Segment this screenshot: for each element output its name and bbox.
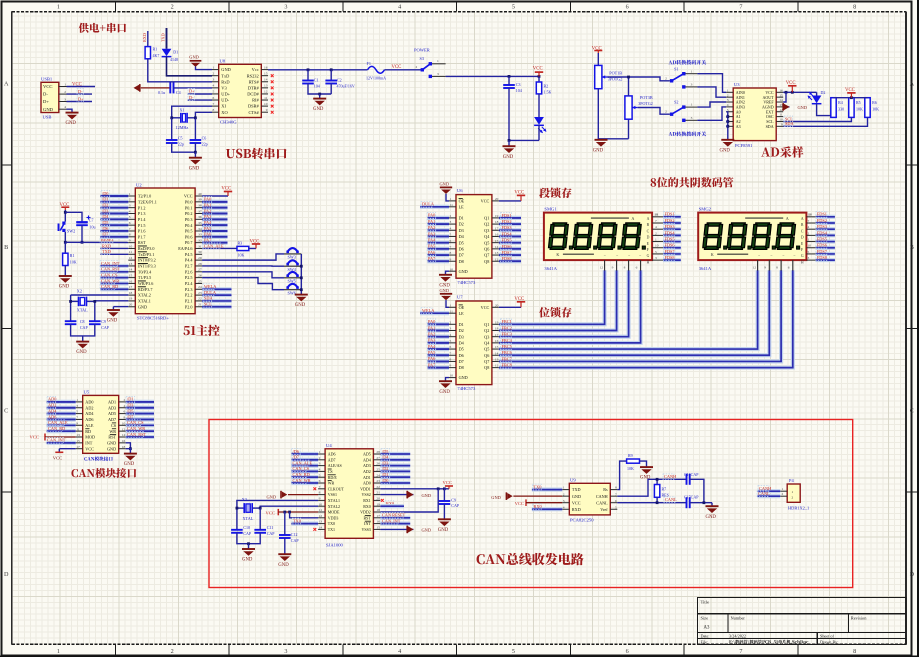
svg-text:F1: F1 (367, 61, 371, 66)
svg-text:P2.7: P2.7 (185, 264, 193, 269)
svg-text:VDD3: VDD3 (328, 515, 339, 520)
svg-text:13: 13 (76, 433, 80, 437)
svg-text:RST: RST (138, 240, 146, 245)
svg-text:1: 1 (782, 487, 784, 491)
svg-text:C: C (910, 407, 914, 414)
svg-text:GND: GND (76, 350, 87, 355)
svg-text:2: 2 (450, 320, 452, 324)
svg-text:3: 3 (655, 256, 657, 260)
svg-text:LE: LE (459, 204, 465, 209)
svg-text:PCA82C250: PCA82C250 (570, 518, 594, 523)
svg-text:10: 10 (264, 102, 268, 106)
svg-text:–: – (638, 253, 641, 257)
svg-text:26: 26 (376, 462, 380, 466)
svg-text:6: 6 (636, 265, 638, 269)
svg-text:1: 1 (76, 398, 78, 402)
svg-text:RD/E: RD/E (328, 475, 338, 480)
svg-text:P4.4: P4.4 (185, 258, 193, 263)
svg-text:B: B (647, 223, 650, 227)
svg-text:4148: 4148 (170, 57, 178, 62)
svg-text:VCC: VCC (514, 297, 524, 302)
svg-text:8: 8 (853, 4, 856, 11)
svg-text:4: 4 (64, 105, 66, 109)
svg-text:Q1: Q1 (484, 322, 489, 327)
svg-text:GND: GND (438, 528, 449, 533)
svg-text:D1: D1 (459, 216, 464, 221)
svg-text:XTAL: XTAL (77, 308, 88, 313)
svg-text:4: 4 (450, 333, 452, 337)
svg-text:6: 6 (123, 410, 125, 414)
svg-text:8: 8 (123, 416, 125, 420)
svg-text:INT: INT (85, 440, 92, 445)
svg-text:PA2: PA2 (428, 225, 435, 230)
svg-text:12: 12 (779, 108, 783, 112)
svg-text:FDS4: FDS4 (502, 231, 513, 236)
svg-text:SMG1: SMG1 (544, 207, 557, 212)
svg-text:B: B (910, 244, 914, 251)
svg-text:FDS2: FDS2 (665, 218, 675, 223)
svg-text:4: 4 (123, 404, 125, 408)
svg-text:2: 2 (319, 456, 321, 460)
svg-text:C10: C10 (243, 525, 250, 530)
svg-text:D-: D- (43, 92, 48, 97)
svg-text:6: 6 (615, 499, 617, 503)
svg-text:PA6: PA6 (428, 356, 436, 361)
svg-text:TXD: TXD (572, 487, 581, 492)
svg-text:1: 1 (563, 486, 565, 490)
svg-text:PA7: PA7 (428, 256, 436, 261)
svg-text:P4.5: P4.5 (185, 252, 193, 257)
svg-text:1: 1 (57, 4, 60, 11)
svg-text:CAN_CS: CAN_CS (127, 420, 144, 425)
svg-text:VCC: VCC (443, 480, 452, 485)
svg-text:XTAL1: XTAL1 (138, 299, 151, 304)
svg-text:CAN_CS: CAN_CS (101, 272, 118, 277)
svg-text:10u: 10u (90, 224, 96, 229)
svg-text:U8: U8 (220, 59, 226, 64)
svg-text:FBC6: FBC6 (502, 350, 513, 355)
svg-text:1: 1 (213, 65, 215, 69)
svg-text:Sheet of: Sheet of (820, 633, 834, 638)
svg-text:POT1B: POT1B (609, 71, 622, 76)
svg-text:–: – (757, 253, 760, 257)
svg-text:GND: GND (440, 182, 450, 187)
svg-text:10: 10 (779, 118, 783, 122)
svg-text:39: 39 (198, 198, 202, 202)
svg-text:C9: C9 (101, 319, 106, 324)
svg-text:24: 24 (376, 473, 380, 477)
svg-text:SMG2: SMG2 (699, 207, 712, 212)
svg-text:AD4: AD4 (48, 408, 57, 413)
svg-text:13: 13 (129, 262, 133, 266)
svg-text:4: 4 (398, 648, 401, 655)
svg-text:26: 26 (198, 273, 202, 277)
svg-text:10: 10 (450, 374, 454, 378)
svg-text:XO: XO (221, 110, 227, 115)
svg-text:GND: GND (43, 107, 54, 112)
svg-text:7: 7 (450, 351, 452, 355)
svg-text:RTS#: RTS# (249, 79, 260, 84)
svg-text:7: 7 (655, 219, 657, 223)
svg-text:K: K (711, 252, 714, 257)
svg-text:17: 17 (129, 285, 133, 289)
svg-text:D: D (801, 236, 804, 240)
svg-text:18: 18 (495, 327, 499, 331)
svg-text:3: 3 (284, 4, 287, 11)
svg-text:FDS8: FDS8 (665, 255, 675, 260)
svg-text:CAN_WR: CAN_WR (293, 478, 311, 483)
svg-text:4: 4 (655, 225, 657, 229)
svg-text:11: 11 (129, 250, 133, 254)
svg-text:1: 1 (319, 450, 321, 454)
svg-text:MODE: MODE (328, 510, 340, 515)
svg-text:4K7: 4K7 (153, 53, 160, 58)
svg-text:19: 19 (376, 502, 380, 506)
svg-text:U9: U9 (570, 477, 576, 482)
svg-text:GND: GND (107, 446, 116, 451)
svg-text:X2: X2 (77, 288, 82, 293)
svg-text:2: 2 (129, 198, 131, 202)
svg-text:10: 10 (319, 502, 323, 506)
svg-text:PA0: PA0 (428, 213, 435, 218)
svg-text:4: 4 (398, 4, 401, 11)
svg-text:3: 3 (319, 462, 321, 466)
svg-text:Q4: Q4 (484, 234, 490, 239)
svg-text:10: 10 (655, 244, 659, 248)
svg-text:U6: U6 (457, 188, 463, 193)
svg-text:Number: Number (731, 616, 746, 621)
svg-text:GND: GND (422, 528, 432, 533)
svg-text:15: 15 (76, 439, 80, 443)
svg-text:P2.1: P2.1 (185, 299, 193, 304)
svg-text:D3: D3 (459, 228, 464, 233)
svg-text:5: 5 (76, 410, 78, 414)
svg-text:FBC3: FBC3 (502, 332, 512, 337)
svg-text:XI: XI (221, 104, 226, 109)
svg-text:VCC: VCC (30, 435, 39, 440)
svg-text:CAN_RST: CAN_RST (101, 267, 120, 272)
svg-text:D+: D+ (78, 96, 84, 101)
svg-text:D: D (910, 571, 915, 578)
svg-text:SW2: SW2 (67, 229, 75, 234)
svg-text:GND: GND (278, 563, 289, 568)
svg-text:FDS7: FDS7 (665, 249, 676, 254)
svg-text:RS232: RS232 (247, 73, 259, 78)
svg-text:3: 3 (691, 116, 693, 120)
svg-text:28: 28 (198, 262, 202, 266)
svg-text:18: 18 (495, 220, 499, 224)
svg-text:RD/P3.7: RD/P3.7 (138, 287, 153, 292)
svg-text:GND: GND (459, 375, 468, 380)
svg-text:7: 7 (615, 492, 617, 496)
svg-text:8: 8 (776, 265, 778, 269)
svg-text:CAP: CAP (267, 531, 276, 536)
svg-text:6: 6 (626, 4, 629, 11)
svg-text:5: 5 (512, 4, 515, 11)
svg-text:FDS8: FDS8 (502, 256, 512, 261)
svg-text:GND: GND (124, 462, 135, 467)
svg-text:/D6: /D6 (102, 226, 109, 231)
svg-text:VDD2: VDD2 (360, 510, 371, 515)
svg-text:C4: C4 (176, 90, 181, 95)
svg-text:D4: D4 (459, 340, 465, 345)
svg-text:U7: U7 (457, 295, 463, 300)
svg-text:/D1: /D1 (127, 397, 133, 402)
svg-text:3POTG2: 3POTG2 (638, 101, 652, 106)
svg-text:VCC: VCC (845, 88, 855, 93)
svg-text:0.1u: 0.1u (158, 90, 165, 95)
svg-text:Q2: Q2 (484, 222, 489, 227)
svg-text:R3: R3 (238, 240, 243, 245)
svg-text:GND: GND (66, 121, 77, 126)
svg-text:TX0: TX0 (293, 518, 301, 523)
svg-text:–: – (793, 253, 796, 257)
svg-text:GND: GND (706, 515, 717, 520)
svg-text:D5: D5 (459, 347, 464, 352)
svg-text:23: 23 (376, 479, 380, 483)
svg-text:T1/P3.5: T1/P3.5 (138, 275, 151, 280)
svg-text:/D5: /D5 (102, 220, 108, 225)
svg-text:1.5K: 1.5K (544, 89, 552, 94)
svg-text:RxD: RxD (221, 79, 229, 84)
svg-text:14: 14 (779, 98, 783, 102)
svg-text:/D3: /D3 (127, 403, 133, 408)
svg-text:5: 5 (512, 648, 515, 655)
svg-text:Q7: Q7 (484, 359, 489, 364)
svg-text:PA5: PA5 (428, 350, 435, 355)
svg-text:12MHz: 12MHz (176, 125, 189, 130)
svg-text:104: 104 (516, 88, 522, 93)
svg-text:FDS4: FDS4 (665, 230, 676, 235)
svg-text:FDS2: FDS2 (502, 219, 512, 224)
svg-text:Q8: Q8 (484, 365, 489, 370)
svg-text:3641A: 3641A (699, 266, 712, 271)
svg-text:Q6: Q6 (484, 353, 489, 358)
svg-text:VCC: VCC (266, 510, 275, 515)
svg-text:D+: D+ (43, 99, 49, 104)
svg-text:WELA: WELA (422, 308, 435, 313)
svg-text:U2: U2 (136, 182, 142, 187)
svg-text:PA7: PA7 (428, 362, 436, 367)
svg-text:FDS8: FDS8 (817, 255, 827, 260)
svg-text:2: 2 (171, 648, 174, 655)
svg-text:15: 15 (129, 273, 133, 277)
svg-text:4: 4 (808, 225, 810, 229)
svg-text:/D2: /D2 (382, 466, 388, 471)
svg-text:18: 18 (376, 508, 380, 512)
svg-text:SDA: SDA (766, 124, 774, 129)
svg-text:OE: OE (459, 305, 465, 310)
svg-text:15: 15 (264, 71, 268, 75)
svg-text:FBC4: FBC4 (502, 338, 513, 343)
svg-text:INT1/P3.3: INT1/P3.3 (138, 264, 156, 269)
svg-text:16: 16 (122, 439, 126, 443)
svg-text:2: 2 (416, 65, 418, 69)
svg-text:1: 1 (57, 648, 60, 655)
svg-text:CAN_ALE: CAN_ALE (48, 420, 68, 425)
svg-text:GND: GND (313, 107, 324, 112)
svg-text:CLKOUT: CLKOUT (328, 486, 345, 491)
svg-text:CS: CS (328, 469, 333, 474)
svg-text:RXD: RXD (142, 33, 147, 42)
svg-text:WR: WR (109, 429, 116, 434)
svg-text:33: 33 (198, 233, 202, 237)
svg-text:2: 2 (792, 496, 794, 500)
svg-text:17: 17 (495, 333, 499, 337)
svg-text:6: 6 (450, 239, 452, 243)
svg-text:G: G (647, 254, 650, 258)
svg-text:20: 20 (495, 197, 499, 201)
svg-text:A: A (4, 80, 9, 87)
svg-text:SW6: SW6 (288, 290, 296, 295)
svg-text:PA1: PA1 (428, 325, 435, 330)
svg-text:C16CAP: C16CAP (684, 472, 699, 477)
svg-text:C: C (647, 229, 650, 233)
svg-text:10K: 10K (238, 252, 245, 257)
svg-text:CANL: CANL (758, 491, 770, 496)
svg-text:PA3: PA3 (428, 338, 435, 343)
svg-text:GND: GND (267, 494, 277, 499)
svg-text:FDS7: FDS7 (502, 250, 513, 255)
svg-text:2: 2 (665, 110, 667, 114)
svg-text:4: 4 (727, 103, 729, 107)
svg-text:10: 10 (450, 267, 454, 271)
svg-text:TXD: TXD (161, 33, 166, 42)
svg-text:DTR#: DTR# (248, 85, 260, 90)
svg-text:VCC: VCC (514, 191, 524, 196)
svg-text:VCC: VCC (85, 446, 94, 451)
svg-text:12: 12 (129, 256, 133, 260)
svg-text:/D3: /D3 (382, 460, 388, 465)
svg-text:GND: GND (440, 288, 450, 293)
svg-text:16: 16 (779, 88, 783, 92)
svg-text:MOD: MOD (85, 435, 95, 440)
svg-text:D: D (647, 236, 650, 240)
svg-text:AD0: AD0 (85, 400, 93, 405)
svg-text:AD6: AD6 (328, 452, 336, 457)
svg-text:GND: GND (221, 67, 231, 72)
svg-text:1: 1 (450, 303, 452, 307)
svg-text:6: 6 (626, 648, 629, 655)
svg-text:CAP: CAP (291, 538, 300, 543)
svg-text:PA4: PA4 (204, 220, 212, 225)
svg-text:4: 4 (563, 505, 565, 509)
svg-text:7: 7 (319, 485, 321, 489)
svg-text:13: 13 (779, 103, 783, 107)
svg-text:F: F (647, 248, 649, 252)
svg-text:FBC2: FBC2 (502, 325, 512, 330)
svg-text:Date:: Date: (701, 633, 710, 638)
svg-text:2: 2 (123, 398, 125, 402)
svg-text:VCC: VCC (53, 456, 62, 461)
svg-text:AD2: AD2 (48, 403, 56, 408)
svg-text:D4: D4 (459, 234, 465, 239)
svg-text:P2.5: P2.5 (185, 275, 193, 280)
svg-text:FBC7: FBC7 (502, 356, 513, 361)
svg-text:SJA1000: SJA1000 (326, 543, 344, 548)
svg-text:2: 2 (665, 76, 667, 80)
svg-text:AD3: AD3 (108, 405, 116, 410)
svg-text:G: G (801, 254, 804, 258)
svg-text:25: 25 (376, 468, 380, 472)
svg-text:9: 9 (319, 497, 321, 501)
svg-text:2: 2 (782, 492, 784, 496)
svg-text:12: 12 (319, 514, 323, 518)
svg-text:Vref: Vref (600, 507, 608, 512)
svg-text:CAN_RD: CAN_RD (48, 426, 65, 431)
svg-text:GND: GND (798, 105, 808, 110)
svg-text:CAN_ALE: CAN_ALE (293, 460, 313, 465)
svg-text:4: 4 (319, 468, 321, 472)
svg-text:–: – (615, 253, 618, 257)
svg-text:PA4: PA4 (428, 237, 436, 242)
svg-text:19: 19 (495, 320, 499, 324)
svg-text:5: 5 (319, 473, 321, 477)
svg-text:CAP: CAP (451, 503, 460, 508)
svg-text:X3: X3 (242, 497, 247, 502)
svg-text:AD2: AD2 (363, 469, 371, 474)
svg-text:AD7: AD7 (328, 457, 336, 462)
svg-text:CS: CS (111, 423, 117, 428)
svg-text:P1.7: P1.7 (138, 234, 146, 239)
svg-text:INT0/P3.2: INT0/P3.2 (138, 258, 156, 263)
svg-text:SDA: SDA (204, 296, 213, 301)
svg-text:22p: 22p (178, 141, 184, 146)
svg-text:40: 40 (198, 192, 202, 196)
svg-text:Q2: Q2 (484, 328, 489, 333)
svg-text:A: A (910, 80, 915, 87)
svg-text:A: A (631, 216, 634, 221)
svg-text:21: 21 (198, 303, 202, 307)
svg-text:VSS2: VSS2 (361, 492, 370, 497)
svg-text:FDS3: FDS3 (502, 225, 512, 230)
svg-text:AD6: AD6 (85, 417, 93, 422)
svg-text:CAN_ALE: CAN_ALE (204, 243, 224, 248)
svg-text:2: 2 (563, 492, 565, 496)
svg-text:16: 16 (264, 65, 268, 69)
svg-text:FBC5: FBC5 (502, 344, 512, 349)
svg-text:GND: GND (189, 55, 199, 60)
svg-text:H: H (647, 260, 650, 264)
svg-text:D5: D5 (459, 240, 464, 245)
svg-text:–: – (782, 253, 785, 257)
svg-text:15: 15 (376, 526, 380, 530)
svg-text:14: 14 (319, 526, 323, 530)
svg-text:AD0: AD0 (48, 397, 56, 402)
svg-text:12: 12 (495, 257, 499, 261)
svg-text:RST: RST (363, 515, 371, 520)
svg-text:3: 3 (437, 72, 439, 76)
svg-text:P0.5: P0.5 (185, 229, 193, 234)
svg-text:37: 37 (198, 209, 202, 213)
svg-text:P2.6: P2.6 (185, 269, 193, 274)
svg-text:POWER: POWER (414, 47, 430, 52)
svg-text:P4: P4 (789, 478, 794, 483)
svg-text:7: 7 (739, 4, 742, 11)
svg-text:C2: C2 (337, 77, 342, 82)
svg-text:3: 3 (284, 648, 287, 655)
svg-text:R2: R2 (544, 83, 549, 88)
svg-text:P0.6: P0.6 (185, 234, 193, 239)
svg-text:PA0: PA0 (204, 197, 211, 202)
svg-text:3: 3 (213, 78, 215, 82)
svg-text:8: 8 (615, 486, 617, 490)
svg-text:S1: S1 (674, 66, 678, 71)
svg-text:UD+: UD+ (221, 92, 230, 97)
svg-text:VSS1: VSS1 (328, 492, 337, 497)
svg-text:12: 12 (600, 265, 604, 269)
svg-text:PA2: PA2 (204, 208, 211, 213)
